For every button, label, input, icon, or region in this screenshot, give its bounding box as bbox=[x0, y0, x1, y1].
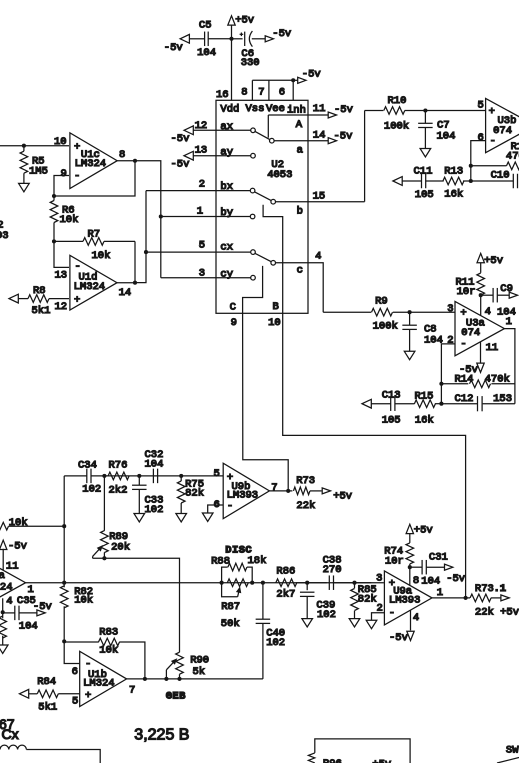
svg-text:105: 105 bbox=[382, 415, 401, 427]
capacitor C35 104 bbox=[3, 595, 38, 632]
inductor Cx coil bbox=[0, 745, 100, 763]
junction R85 tap bbox=[352, 581, 356, 585]
svg-text:22k +5v: 22k +5v bbox=[475, 607, 519, 619]
svg-text:3: 3 bbox=[376, 573, 382, 585]
svg-text:10r: 10r bbox=[385, 556, 404, 568]
svg-text:+5v: +5v bbox=[372, 759, 391, 763]
svg-text:LM324: LM324 bbox=[0, 581, 13, 593]
wire select C link bbox=[243, 266, 263, 313]
svg-text:22k: 22k bbox=[296, 500, 315, 512]
svg-text:C5: C5 bbox=[199, 19, 212, 31]
svg-text:-5v: -5v bbox=[446, 573, 465, 585]
svg-text:82k: 82k bbox=[358, 593, 377, 605]
svg-text:100k: 100k bbox=[384, 121, 409, 133]
svg-text:a: a bbox=[297, 145, 303, 157]
wire R7 to U1d out bbox=[134, 241, 136, 282]
svg-text:3,225 В: 3,225 В bbox=[134, 727, 189, 744]
svg-text:6: 6 bbox=[478, 132, 484, 144]
svg-text:C31: C31 bbox=[429, 551, 448, 563]
op-amp U9a LM393 bbox=[376, 571, 443, 625]
svg-text:104: 104 bbox=[19, 621, 38, 633]
svg-text:LM393: LM393 bbox=[227, 490, 259, 502]
mux U2 4053 body bbox=[216, 100, 308, 313]
input arrow (C11) bbox=[393, 177, 402, 186]
svg-text:+5v: +5v bbox=[414, 525, 433, 537]
svg-text:-: - bbox=[490, 136, 496, 148]
svg-text:R83: R83 bbox=[99, 627, 118, 639]
svg-text:3: 3 bbox=[447, 303, 453, 315]
svg-text:R8: R8 bbox=[33, 285, 46, 297]
svg-text:Vee: Vee bbox=[266, 103, 285, 115]
wire U3a out bbox=[504, 329, 515, 404]
ground (C8) bbox=[404, 351, 415, 359]
svg-text:16k: 16k bbox=[415, 415, 434, 427]
wire U1d out bbox=[117, 281, 137, 285]
svg-text:LM393: LM393 bbox=[389, 595, 421, 607]
junction Vdd node bbox=[229, 37, 233, 41]
svg-text:103: 103 bbox=[0, 230, 9, 242]
resistor R85 82k bbox=[351, 583, 377, 619]
resistor R73.1 22k bbox=[470, 583, 519, 619]
capacitor C31 104 bbox=[410, 551, 448, 587]
input arrow (R84) bbox=[19, 689, 28, 698]
capacitor C7 104 bbox=[418, 111, 455, 149]
resistor R82 10k bbox=[60, 583, 93, 642]
resistor R12 470k bbox=[471, 141, 519, 170]
wire pin 10 route bbox=[283, 313, 466, 598]
op-amp U1d LM324 bbox=[55, 255, 132, 313]
svg-text:-: - bbox=[389, 608, 395, 620]
svg-text:LM324: LM324 bbox=[83, 678, 115, 690]
svg-text:B: B bbox=[273, 301, 279, 313]
svg-text:4053: 4053 bbox=[267, 169, 292, 181]
node c bbox=[297, 265, 303, 277]
pin label C bbox=[230, 302, 236, 314]
wire U9a -in to ground bbox=[372, 613, 385, 621]
pin label Vdd bbox=[220, 104, 239, 116]
wire U1c out bbox=[117, 159, 137, 163]
wire pin 9 route bbox=[243, 313, 289, 491]
switch b common bbox=[255, 192, 276, 204]
svg-text:cx: cx bbox=[220, 242, 233, 254]
svg-text:10: 10 bbox=[268, 317, 281, 329]
svg-text:R9: R9 bbox=[375, 296, 388, 308]
power -5v (left of C5) bbox=[164, 34, 190, 53]
svg-text:4: 4 bbox=[485, 306, 491, 318]
label Cx bbox=[2, 726, 19, 742]
label SW bbox=[506, 744, 519, 756]
wire pin15 riser to R10 bbox=[364, 111, 366, 202]
svg-text:074: 074 bbox=[461, 327, 480, 339]
svg-text:10: 10 bbox=[54, 136, 67, 148]
svg-text:8: 8 bbox=[241, 87, 247, 99]
svg-text:+5v: +5v bbox=[235, 14, 254, 26]
svg-text:10k: 10k bbox=[60, 214, 79, 226]
pin 8 label bbox=[241, 87, 247, 99]
ground (R5) bbox=[19, 183, 30, 191]
resistor R76 2k2 bbox=[108, 460, 129, 497]
resistor R83 10k bbox=[64, 627, 145, 679]
wire ax pin 12 row bbox=[193, 120, 251, 133]
ground (R85) bbox=[349, 619, 360, 627]
svg-text:C13: C13 bbox=[382, 390, 401, 402]
svg-text:074: 074 bbox=[493, 125, 512, 137]
wire select A link bbox=[268, 115, 308, 138]
svg-text:b: b bbox=[297, 206, 303, 218]
ground (C33) bbox=[134, 514, 145, 522]
pin 9 label bbox=[231, 317, 237, 329]
wire U3b -in feedback bbox=[469, 141, 486, 183]
junction R11/C9/pin4 bbox=[479, 293, 483, 297]
input arrow (C13) bbox=[362, 399, 371, 408]
svg-text:18k: 18k bbox=[248, 555, 267, 567]
capacitor C8 104 bbox=[402, 312, 443, 351]
wire R9 row bbox=[323, 311, 455, 313]
resistor R75 82k bbox=[177, 476, 204, 514]
pin label Vss bbox=[246, 103, 265, 115]
wiper R87 bbox=[222, 583, 241, 597]
junction DISC right bbox=[250, 581, 254, 585]
svg-text:5k1: 5k1 bbox=[38, 701, 57, 713]
op-amp U9b LM393 bbox=[214, 463, 278, 518]
wire U1a pin4 bbox=[3, 596, 13, 613]
svg-text:8: 8 bbox=[119, 149, 125, 161]
svg-text:10k: 10k bbox=[92, 250, 111, 262]
resistor R11 10r bbox=[456, 262, 485, 317]
svg-text:10k: 10k bbox=[99, 645, 118, 657]
wire U1a out row / DISC row bbox=[26, 582, 372, 584]
svg-text:.1: .1 bbox=[494, 583, 507, 595]
capacitor C33 102 bbox=[132, 476, 163, 516]
wire left column bbox=[62, 476, 66, 583]
svg-text:2: 2 bbox=[447, 335, 453, 347]
junction C7 tap bbox=[423, 108, 427, 112]
svg-text:102: 102 bbox=[82, 484, 101, 496]
svg-text:11: 11 bbox=[313, 103, 326, 115]
wire to U1b -in bbox=[64, 641, 80, 663]
svg-text:-: - bbox=[74, 171, 80, 183]
wire (SW, clipped) bbox=[497, 758, 519, 763]
ground (C7) bbox=[420, 149, 431, 157]
svg-text:R96: R96 bbox=[323, 758, 342, 763]
power -5v (U9a) bbox=[389, 631, 414, 644]
power -5v (U1a pin11) bbox=[0, 540, 27, 552]
resistor R9 100k bbox=[372, 296, 398, 333]
wire ay pin 13 row bbox=[193, 145, 251, 159]
label fragment C2/103 bbox=[0, 220, 9, 243]
resistor R74 10r bbox=[384, 532, 413, 586]
svg-text:ax: ax bbox=[220, 121, 233, 133]
svg-text:R7: R7 bbox=[88, 229, 101, 241]
capacitor C13 105 bbox=[372, 390, 415, 427]
svg-text:20k: 20k bbox=[111, 542, 130, 554]
svg-text:LM324: LM324 bbox=[74, 281, 106, 293]
wire by pin 1 row bbox=[161, 206, 251, 220]
svg-text:-5v: -5v bbox=[272, 28, 291, 40]
wire Vdd riser to pin 16 bbox=[231, 39, 233, 101]
power -5v (U3a) bbox=[459, 363, 484, 376]
resistor R14 470k bbox=[441, 374, 515, 388]
capacitor C5 bbox=[197, 19, 216, 59]
power arrow (C9) bbox=[509, 292, 517, 298]
junction C35 node bbox=[1, 610, 5, 614]
net label GEB bbox=[166, 690, 186, 702]
resistor R88 18k (parallel) bbox=[211, 555, 266, 583]
svg-text:R13: R13 bbox=[444, 165, 463, 177]
svg-text:LM324: LM324 bbox=[75, 158, 107, 170]
wire pin 4 row bbox=[275, 251, 323, 313]
power -5v (chip top) bbox=[293, 69, 321, 84]
svg-text:R76: R76 bbox=[109, 460, 128, 472]
svg-text:-5v: -5v bbox=[389, 632, 408, 644]
svg-text:-5v: -5v bbox=[334, 131, 353, 143]
wire U1c feedback bbox=[52, 161, 135, 198]
wire U9a out bbox=[432, 596, 470, 600]
svg-text:R10: R10 bbox=[388, 95, 407, 107]
net label DISC bbox=[225, 544, 252, 556]
capacitor C11 105 bbox=[402, 165, 444, 201]
capacitor C34 102 bbox=[78, 460, 101, 496]
op-amp U1a LM324 (clipped) bbox=[0, 555, 34, 610]
wire U1d out to bx/cx bbox=[135, 191, 148, 283]
op-amp U1b LM324 bbox=[72, 651, 136, 707]
junction DISC left bbox=[220, 581, 224, 585]
ground (R75) bbox=[176, 514, 187, 522]
input arrow (R8) bbox=[9, 294, 18, 303]
junction R75 tap bbox=[179, 474, 183, 478]
potentiometer R89 20k bbox=[93, 476, 130, 558]
ground (C39) bbox=[302, 619, 313, 627]
node a bbox=[297, 145, 303, 157]
power -5v (ay) bbox=[171, 151, 194, 170]
power -5v (right of C6) bbox=[265, 28, 291, 42]
svg-text:470k: 470k bbox=[485, 374, 510, 386]
wire cx pin 5 row bbox=[146, 240, 251, 254]
junction R90 wiper bbox=[164, 677, 181, 681]
wire signal row to U9b bbox=[64, 475, 223, 477]
resistor R87 50k (on row) bbox=[221, 579, 249, 630]
switch contact cx bbox=[251, 250, 256, 255]
svg-text:104: 104 bbox=[421, 575, 440, 587]
junction U1a out bbox=[62, 581, 66, 585]
svg-text:470k: 470k bbox=[506, 151, 519, 163]
wire U1c -in bbox=[54, 176, 69, 197]
op-amp U3a 074 bbox=[447, 301, 512, 355]
junction C39 tap bbox=[305, 581, 309, 585]
svg-text:by: by bbox=[220, 207, 233, 219]
wire U9b -in to ground bbox=[208, 505, 224, 513]
svg-text:2: 2 bbox=[199, 179, 205, 191]
resistor R6 10k bbox=[50, 196, 78, 241]
svg-text:102: 102 bbox=[145, 504, 164, 516]
capacitor C39 102 bbox=[300, 583, 336, 621]
svg-text:10k: 10k bbox=[74, 594, 93, 606]
svg-text:5k: 5k bbox=[193, 666, 206, 678]
svg-text:1M5: 1M5 bbox=[29, 166, 48, 178]
resistor R7 10k bbox=[54, 229, 135, 263]
svg-text:C34: C34 bbox=[78, 460, 97, 472]
svg-text:14: 14 bbox=[313, 130, 326, 142]
svg-text:6: 6 bbox=[279, 87, 285, 99]
resistor to ground (clipped) bbox=[0, 612, 7, 645]
pin 16 label bbox=[216, 89, 229, 101]
svg-text:-5v: -5v bbox=[171, 159, 190, 171]
wire pin 11 to -5v bbox=[308, 103, 328, 115]
svg-text:1: 1 bbox=[506, 316, 512, 328]
svg-text:5: 5 bbox=[72, 696, 78, 708]
switch contact bx bbox=[250, 188, 255, 193]
svg-text:+: + bbox=[74, 295, 80, 307]
svg-text:R90: R90 bbox=[190, 654, 209, 666]
svg-text:+5v: +5v bbox=[333, 491, 352, 503]
svg-text:-5v: -5v bbox=[8, 540, 27, 552]
power +5v (R73) bbox=[322, 488, 352, 503]
svg-text:105: 105 bbox=[415, 189, 434, 201]
svg-text:Vss: Vss bbox=[246, 103, 265, 115]
capacitor C40 102 bbox=[256, 583, 285, 679]
wire cy pin 3 row bbox=[161, 268, 251, 281]
pin 10 label bbox=[268, 317, 281, 329]
wire bx pin 2 row bbox=[146, 179, 250, 194]
svg-text:-5v: -5v bbox=[171, 133, 190, 145]
svg-text:7: 7 bbox=[258, 87, 264, 99]
wire R89 to R90 bbox=[93, 558, 180, 652]
wire U1b out row bbox=[127, 677, 263, 681]
svg-text:12: 12 bbox=[195, 120, 208, 132]
svg-text:-5v: -5v bbox=[334, 104, 353, 116]
svg-text:c: c bbox=[297, 265, 303, 277]
svg-text:GEB: GEB bbox=[166, 690, 186, 702]
switch c common bbox=[255, 253, 275, 265]
svg-text:16k: 16k bbox=[444, 189, 463, 201]
wire pin 14 to -5v bbox=[274, 130, 328, 142]
svg-text:9: 9 bbox=[231, 317, 237, 329]
ground (U9b pin6) bbox=[202, 513, 213, 521]
junction C40 tap bbox=[261, 581, 265, 585]
junction R6/R7 node bbox=[52, 239, 56, 243]
power +5v (clipped) bbox=[372, 759, 391, 763]
svg-text:R86: R86 bbox=[276, 566, 295, 578]
svg-text:Vdd: Vdd bbox=[220, 104, 239, 116]
svg-text:1: 1 bbox=[28, 584, 34, 596]
resistor R8 5k1 bbox=[18, 285, 70, 317]
switch contact cy bbox=[251, 275, 256, 280]
svg-text:+5v: +5v bbox=[484, 255, 503, 267]
power -5v (C35) bbox=[33, 601, 52, 616]
power -5v (C31) bbox=[445, 564, 466, 585]
svg-text:7: 7 bbox=[271, 482, 277, 494]
svg-text:+: + bbox=[489, 106, 495, 118]
resistor 10k (left edge) bbox=[0, 517, 64, 530]
pin 6 label bbox=[279, 87, 285, 99]
label 67 bbox=[0, 716, 15, 732]
svg-text:10r: 10r bbox=[457, 286, 476, 298]
resistor R86 2k7 bbox=[276, 566, 327, 601]
resistor R10 100k bbox=[365, 95, 486, 133]
capacitor C10 bbox=[471, 170, 518, 189]
svg-text:5: 5 bbox=[214, 468, 220, 480]
svg-text:C10: C10 bbox=[491, 170, 510, 182]
junction C8 tap bbox=[408, 310, 412, 314]
op-amp U3b 074 bbox=[478, 98, 519, 152]
svg-text:R84: R84 bbox=[37, 676, 56, 688]
potentiometer R90 5k bbox=[166, 652, 209, 679]
svg-text:8: 8 bbox=[413, 575, 419, 587]
svg-text:5: 5 bbox=[199, 240, 205, 252]
pin 7 label bbox=[258, 87, 264, 99]
capacitor C32 104 bbox=[145, 449, 164, 483]
wire U1c out to by/cy bbox=[135, 161, 163, 278]
capacitor C9 104 bbox=[481, 283, 516, 319]
node b bbox=[297, 206, 303, 218]
pin label inh bbox=[287, 105, 306, 117]
wire U9b out bbox=[269, 489, 292, 493]
junction C33 tap bbox=[137, 474, 141, 478]
svg-text:-: - bbox=[227, 501, 233, 513]
svg-text:6: 6 bbox=[72, 666, 78, 678]
capacitor C12 153 bbox=[441, 393, 515, 412]
svg-text:270: 270 bbox=[323, 564, 342, 576]
svg-text:4: 4 bbox=[413, 612, 419, 624]
junction R5 tap bbox=[22, 144, 26, 148]
wire U3a pin11 bbox=[480, 342, 482, 364]
wire U1a pin11 bbox=[3, 549, 18, 573]
svg-text:15: 15 bbox=[313, 191, 326, 203]
svg-text:2k7: 2k7 bbox=[276, 589, 295, 601]
svg-text:104: 104 bbox=[197, 47, 216, 59]
wire U1d -in bbox=[54, 241, 69, 267]
svg-text:SW: SW bbox=[506, 744, 519, 756]
ground (below C35) bbox=[0, 645, 8, 653]
svg-text:5: 5 bbox=[478, 100, 484, 112]
svg-text:104: 104 bbox=[424, 335, 443, 347]
switch contact ax bbox=[251, 128, 256, 133]
svg-text:R73: R73 bbox=[296, 475, 315, 487]
wire Vss/Vee/inh strap bbox=[252, 78, 295, 100]
resistor R84 5k1 bbox=[28, 676, 80, 713]
svg-text:12: 12 bbox=[55, 301, 68, 313]
capacitor C6 (polarized) bbox=[232, 31, 266, 69]
switch a common bbox=[255, 131, 274, 143]
svg-text:5k1: 5k1 bbox=[32, 305, 51, 317]
svg-text:A: A bbox=[296, 119, 303, 131]
resistor R15 16k bbox=[414, 391, 441, 427]
wire U3a -in feedback bbox=[439, 344, 455, 406]
resistor R5 1M5 bbox=[20, 146, 48, 184]
ground (U9a pin2) bbox=[366, 620, 377, 628]
svg-text:100k: 100k bbox=[373, 321, 398, 333]
svg-text:102: 102 bbox=[317, 609, 336, 621]
junction R74/C31/pin8 bbox=[408, 565, 412, 569]
switch contact ay bbox=[251, 153, 256, 158]
power +5v (R74) bbox=[406, 524, 433, 536]
capacitor C38 270 bbox=[323, 555, 384, 590]
svg-text:14: 14 bbox=[119, 287, 132, 299]
svg-text:7: 7 bbox=[129, 684, 135, 696]
svg-text:50k: 50k bbox=[221, 618, 240, 630]
svg-text:R15: R15 bbox=[415, 391, 434, 403]
svg-text:-5v: -5v bbox=[164, 42, 183, 54]
svg-text:330: 330 bbox=[241, 57, 260, 69]
svg-text:4: 4 bbox=[6, 596, 12, 608]
svg-text:C11: C11 bbox=[414, 165, 433, 177]
svg-text:1: 1 bbox=[437, 587, 443, 599]
box (bottom right, clipped) bbox=[308, 739, 410, 763]
resistor R13 16k bbox=[443, 165, 471, 200]
junction R82/R83 bbox=[62, 639, 66, 643]
svg-text:C: C bbox=[230, 302, 236, 314]
svg-text:R88: R88 bbox=[211, 556, 230, 568]
